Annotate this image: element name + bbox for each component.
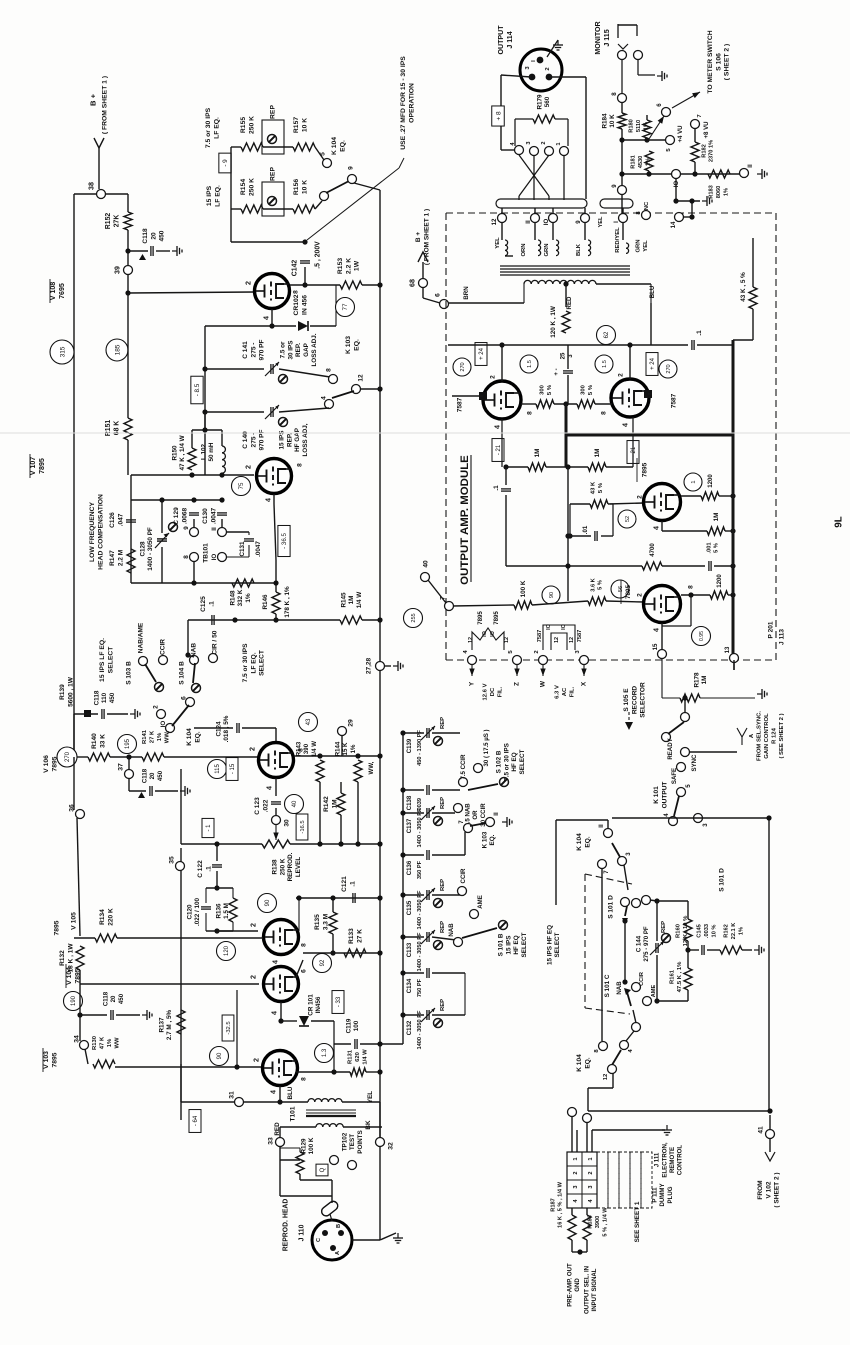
wire C140 to K103 4 bbox=[279, 408, 329, 412]
junction bus R153 bbox=[377, 282, 382, 287]
terminal CCIR S101B bbox=[458, 887, 467, 896]
wire R160 dn bbox=[687, 941, 689, 950]
junction y201 bbox=[673, 198, 678, 203]
label S101D right bbox=[718, 868, 725, 892]
junction cath mid bbox=[563, 401, 568, 406]
junction C139 bbox=[400, 730, 405, 735]
label +8VU bbox=[703, 121, 710, 139]
svg-text:1400 - 3050 PF: 1400 - 3050 PF bbox=[147, 527, 154, 571]
junction bus y620 bbox=[377, 617, 382, 622]
svg-text:- 9: - 9 bbox=[222, 159, 229, 167]
wire y242 bbox=[231, 241, 305, 243]
pin 2 V107 bbox=[245, 465, 253, 469]
wire cross b bbox=[519, 155, 549, 200]
label C120 .022/100 bbox=[186, 897, 201, 926]
wire C141 to K103 bbox=[279, 369, 330, 377]
svg-text:332 K: 332 K bbox=[237, 589, 244, 606]
terminal 9 K104 bbox=[348, 175, 357, 184]
wire C139 left bbox=[403, 732, 424, 734]
svg-text:7587: 7587 bbox=[670, 393, 677, 408]
svg-text:REP: REP bbox=[661, 921, 667, 933]
label V103 7895 bbox=[43, 1051, 58, 1069]
label .1 lower bbox=[493, 485, 500, 491]
svg-text:7587: 7587 bbox=[456, 397, 463, 412]
wire 12 left bbox=[588, 1087, 613, 1089]
label 4 K103 bbox=[320, 396, 327, 400]
label .5 200V bbox=[314, 241, 321, 269]
wire C131 loop bbox=[226, 532, 249, 557]
junction r bottom bbox=[577, 1249, 582, 1254]
node 31 bbox=[235, 1098, 244, 1107]
wire R151 up bbox=[127, 293, 129, 418]
wire R131 to bus bbox=[366, 1071, 380, 1073]
svg-text:7895: 7895 bbox=[493, 611, 500, 625]
svg-text:7895: 7895 bbox=[52, 1052, 59, 1067]
wire T101 bot left bbox=[280, 1126, 316, 1128]
wire CR101 lead bbox=[281, 1020, 297, 1022]
svg-text:15 K: 15 K bbox=[342, 742, 349, 755]
wire S101C to 4 bbox=[626, 1031, 634, 1041]
wire J110 gnd lead bbox=[380, 1233, 396, 1240]
resistor R181 bbox=[645, 151, 653, 171]
terminal READY bbox=[662, 733, 671, 742]
wire 41 up bbox=[769, 1115, 771, 1130]
ground conn bbox=[662, 1125, 672, 1135]
fold line bbox=[0, 432, 850, 434]
label 1M a bbox=[534, 449, 541, 458]
label t2 bbox=[541, 141, 547, 144]
pin 8 tubeB bbox=[600, 411, 607, 415]
svg-text:20: 20 bbox=[150, 232, 157, 240]
wire loop sides bbox=[206, 888, 233, 931]
capacitor .1 lower bbox=[501, 489, 511, 491]
switch K104 blade low bbox=[172, 705, 189, 726]
label 6 K104 bbox=[180, 696, 187, 700]
wire sec d1 bbox=[584, 222, 586, 240]
svg-text:2370 1%: 2370 1% bbox=[709, 140, 715, 162]
label 9 TB101 bbox=[183, 526, 190, 530]
label .1 module bbox=[696, 330, 703, 336]
wire tubeD plate bbox=[681, 594, 710, 596]
junction 1200b bus bbox=[730, 592, 735, 597]
wire 1200a right bbox=[719, 495, 733, 497]
svg-text:22.1 K: 22.1 K bbox=[731, 922, 737, 940]
resistor R146 bbox=[272, 592, 280, 614]
label 36K 5% bbox=[590, 577, 603, 591]
svg-text:Y: Y bbox=[468, 681, 475, 686]
wire R151 down bbox=[127, 440, 129, 475]
wire C138 left bbox=[403, 789, 424, 791]
wire V106 plate row bbox=[294, 755, 380, 757]
junction C136 bbox=[400, 852, 405, 857]
svg-text:.0033: .0033 bbox=[704, 924, 710, 938]
label J110 bbox=[298, 1224, 305, 1241]
connector J114 shell bbox=[520, 49, 562, 91]
svg-text:II: II bbox=[747, 164, 754, 168]
junction bus K103 bbox=[377, 386, 382, 391]
label -21 box b bbox=[627, 441, 639, 464]
wire caps right C138 bbox=[432, 789, 460, 791]
winding sec c bbox=[556, 240, 559, 256]
svg-text:DUMMY: DUMMY bbox=[659, 1183, 666, 1206]
pot C139 REP bbox=[434, 737, 443, 746]
wire V107 left lead bbox=[130, 475, 132, 500]
label R138 250K REPROD LEVEL bbox=[271, 852, 302, 881]
label 7.5 or 30 IPS LF EQ bbox=[205, 107, 220, 148]
arrow S101C blade bbox=[624, 988, 631, 995]
wire R150 top bbox=[191, 430, 193, 448]
svg-text:C118: C118 bbox=[93, 690, 100, 705]
label R147 2.2M bbox=[109, 550, 124, 566]
label C130 .0047 bbox=[202, 507, 217, 524]
wire V104 plate lead bbox=[296, 960, 303, 977]
wire r186 up bbox=[586, 1208, 588, 1215]
label 25 3 bbox=[559, 352, 574, 359]
label C118 20 450 v106 bbox=[141, 768, 163, 783]
node 6 meter bbox=[662, 108, 671, 117]
ground K103b bbox=[502, 817, 512, 827]
pin 4 V104 bbox=[271, 1011, 279, 1015]
svg-text:- 36.5: - 36.5 bbox=[281, 533, 288, 549]
svg-text:.1: .1 bbox=[205, 866, 212, 872]
label R152 27K bbox=[105, 213, 120, 230]
svg-text:MONITOR: MONITOR bbox=[594, 21, 602, 54]
svg-text:12: 12 bbox=[603, 1073, 609, 1080]
resistor 100K mod bbox=[514, 601, 532, 609]
svg-text:REP: REP bbox=[440, 921, 446, 933]
junction bus y1072 bbox=[377, 1069, 382, 1074]
terminal 2 J114w bbox=[545, 147, 554, 156]
wire jack dn b bbox=[534, 208, 536, 214]
svg-text:REP: REP bbox=[440, 797, 446, 809]
wire caps join r bbox=[464, 973, 466, 1015]
transformer T101 bottom coil bbox=[316, 1124, 343, 1127]
svg-text:R131: R131 bbox=[348, 1049, 354, 1064]
wire .001 right bbox=[714, 565, 733, 567]
wire wiper arrow R138 bbox=[273, 825, 278, 840]
wire K103 12 to bus bbox=[360, 388, 380, 390]
wire right bus x770 bbox=[768, 818, 770, 1111]
svg-text:R155: R155 bbox=[240, 117, 247, 133]
resistor R133 bbox=[344, 949, 366, 957]
terminal 7.5 CCIR bbox=[459, 778, 468, 787]
svg-text:6: 6 bbox=[300, 969, 307, 973]
wire C118 to gnd bbox=[156, 250, 170, 252]
test point 255 bbox=[404, 609, 423, 628]
svg-text:2: 2 bbox=[250, 923, 258, 927]
svg-text:37: 37 bbox=[117, 763, 124, 771]
wire 1M c row bbox=[662, 530, 707, 532]
label AME s101c bbox=[651, 984, 657, 997]
junction tubeB top bbox=[627, 342, 632, 347]
label K104 EQ low bbox=[186, 728, 201, 746]
svg-text:1M: 1M bbox=[713, 513, 720, 522]
label 8 TB101 bbox=[183, 555, 190, 559]
wire C144 stem bbox=[656, 901, 658, 941]
terminal 12 K103 bbox=[352, 385, 361, 394]
wire y467 a bbox=[506, 466, 528, 468]
ground C118 bbox=[172, 246, 182, 256]
label C133 REP bbox=[440, 921, 446, 933]
svg-text:3900: 3900 bbox=[595, 1216, 601, 1229]
pin 4 V106 bbox=[266, 786, 274, 790]
svg-text:EQ.: EQ. bbox=[489, 834, 496, 845]
svg-text:7895: 7895 bbox=[477, 611, 484, 625]
wire C133 left bbox=[403, 936, 424, 938]
label R181 4530 1% bbox=[631, 155, 652, 169]
terminal CCIR/50 S104B bbox=[209, 654, 218, 663]
wire 1Mc right bbox=[725, 530, 733, 532]
svg-text:C 129: C 129 bbox=[173, 507, 180, 525]
label K104 EQ bottom bbox=[576, 1054, 591, 1072]
test point 195 bbox=[118, 735, 137, 754]
label LOW FREQUENCY HEAD COMPENSATION bbox=[89, 494, 104, 570]
svg-text:C132: C132 bbox=[406, 1020, 413, 1035]
wire 43K drop bbox=[569, 504, 571, 536]
svg-text:178 K , 1%: 178 K , 1% bbox=[284, 586, 291, 618]
svg-text:R143: R143 bbox=[295, 741, 302, 756]
switch S101B blade bbox=[462, 928, 497, 938]
terminal 4 K104b bbox=[620, 1041, 629, 1050]
ground 27 28 bbox=[393, 661, 403, 671]
test point 90 V105 bbox=[258, 894, 277, 913]
label R130 47K 1% WW bbox=[92, 1035, 121, 1050]
wire 29 riser bbox=[341, 735, 343, 756]
label K104 EQ top bbox=[331, 137, 346, 155]
test point 75 bbox=[232, 477, 251, 496]
junction R144 bottom bbox=[355, 841, 360, 846]
label R129 100K bbox=[300, 1137, 315, 1154]
label pin1 J114 bbox=[531, 60, 537, 62]
junction 14 right bbox=[689, 214, 694, 219]
label 11 K103b bbox=[493, 812, 500, 816]
svg-text:K 104: K 104 bbox=[186, 728, 193, 746]
wire R155 left bbox=[231, 146, 241, 148]
label K103 EQ b bbox=[481, 831, 496, 848]
svg-text:2: 2 bbox=[489, 375, 496, 379]
capacitor C120 (.022/100) bbox=[201, 907, 211, 909]
switch S101D blade bbox=[625, 906, 627, 916]
polarity mark C118 v106 bbox=[138, 792, 145, 798]
wire comp left vert bbox=[130, 500, 132, 583]
label +24 box left bbox=[475, 343, 487, 366]
svg-text:4: 4 bbox=[653, 628, 661, 632]
junction y566 bus bbox=[730, 563, 735, 568]
label pin C bbox=[316, 1238, 322, 1242]
terminal 10 K104 bbox=[166, 724, 175, 733]
svg-text:C138: C138 bbox=[406, 795, 413, 810]
wire diode lead bbox=[272, 325, 296, 327]
wire 68 down bbox=[422, 287, 424, 298]
thick bus right bbox=[732, 340, 735, 656]
svg-text:REP.: REP. bbox=[286, 433, 293, 447]
label 3 term bbox=[575, 650, 581, 654]
svg-text:OUTPUT: OUTPUT bbox=[497, 25, 505, 55]
wire C140 row bbox=[205, 411, 264, 413]
svg-text:250 K: 250 K bbox=[279, 858, 286, 875]
wire jack dn d bbox=[584, 208, 586, 214]
svg-text:V 103: V 103 bbox=[43, 1051, 50, 1069]
wire str d bbox=[563, 156, 565, 200]
svg-text:C139: C139 bbox=[406, 738, 413, 753]
shield oval b bbox=[600, 199, 633, 208]
wire r186 dn bbox=[586, 1240, 588, 1252]
resistor 1M a bbox=[528, 463, 546, 471]
wire R154-R156 bbox=[263, 208, 293, 210]
pin 8 V107 bbox=[296, 463, 303, 467]
svg-text:7895: 7895 bbox=[52, 756, 59, 771]
test point 40 bbox=[285, 795, 304, 814]
connector J111 frame bbox=[567, 1152, 597, 1208]
ground meter bbox=[757, 169, 767, 179]
svg-text:S 101 C: S 101 C bbox=[604, 974, 611, 997]
svg-text:90: 90 bbox=[265, 899, 271, 906]
wire pri left bbox=[448, 302, 524, 304]
junction 1200a bus bbox=[730, 493, 735, 498]
label fil 10b bbox=[490, 631, 496, 637]
svg-text:5 %: 5 % bbox=[598, 482, 604, 493]
svg-text:C 123: C 123 bbox=[254, 797, 261, 815]
label 27 28 bbox=[365, 657, 372, 674]
resistor R160 bbox=[684, 919, 692, 941]
label R183 8060 1% bbox=[709, 185, 730, 199]
svg-text:1400 - 3050 PF: 1400 - 3050 PF bbox=[417, 808, 423, 848]
transformer T101 top coil bbox=[308, 1099, 342, 1102]
label 9 meter bbox=[611, 184, 618, 188]
label 9 xfmr bbox=[575, 220, 582, 224]
label 7.5 CCIR bbox=[460, 754, 467, 780]
junction comp br bbox=[273, 580, 278, 585]
wire R146 dn bbox=[275, 614, 277, 620]
wire y467 b bbox=[546, 466, 588, 468]
label 8 K103 bbox=[325, 368, 332, 372]
tube V103 (7895) bbox=[263, 1051, 298, 1086]
terminal 1 K104 eq bbox=[320, 192, 329, 201]
svg-text:7895: 7895 bbox=[38, 458, 46, 474]
wire sec b1 bbox=[534, 222, 536, 240]
wire sec e1 bbox=[622, 222, 624, 240]
wire V103 grid riser bbox=[180, 1064, 182, 1092]
label J111 pin 4 b bbox=[588, 1199, 594, 1203]
label +4VU bbox=[677, 125, 684, 143]
svg-text:1: 1 bbox=[588, 1157, 594, 1160]
wire c118v106 bbox=[129, 790, 146, 792]
svg-text:1%: 1% bbox=[245, 593, 252, 603]
wire V107 cath3 bbox=[275, 560, 277, 592]
svg-text:R180: R180 bbox=[629, 119, 635, 133]
underline V107 bbox=[29, 454, 31, 478]
wire caps right C133 bbox=[432, 937, 456, 940]
svg-text:T101: T101 bbox=[289, 1106, 296, 1121]
wire sync right bbox=[689, 751, 737, 753]
label Q box bbox=[316, 1164, 328, 1176]
junction C133 bbox=[400, 934, 405, 939]
junction node37 tap bbox=[126, 754, 131, 759]
svg-text:REP: REP bbox=[440, 717, 446, 729]
wire C128 up bbox=[161, 500, 163, 533]
pin 8 V108 bbox=[292, 290, 299, 294]
capacitor C118 (110/450) bbox=[102, 709, 104, 719]
wire conn b bbox=[586, 1122, 588, 1152]
svg-text:1400 - 3050 PF: 1400 - 3050 PF bbox=[417, 1010, 423, 1050]
svg-text:V 105: V 105 bbox=[70, 912, 77, 930]
label C135 REP bbox=[440, 879, 446, 891]
svg-text:K 104: K 104 bbox=[331, 137, 338, 155]
wire R129 path bbox=[280, 1148, 300, 1152]
label S103B bbox=[125, 661, 132, 685]
svg-text:( SHEET 2 ): ( SHEET 2 ) bbox=[773, 1172, 780, 1207]
label C135 bbox=[406, 900, 413, 915]
svg-text:.5 , 200V: .5 , 200V bbox=[314, 241, 321, 269]
wire J114 left vert bbox=[500, 75, 502, 150]
svg-text:3: 3 bbox=[588, 1185, 594, 1188]
label S101D bbox=[607, 895, 614, 919]
wire left bus V106-V105 bbox=[73, 757, 75, 810]
label YEL bbox=[367, 1091, 374, 1103]
label 7.5 or 30 IPS LF EQ SELECT bbox=[242, 643, 265, 682]
wire R135 dn bbox=[332, 934, 334, 953]
switch K104 blade top bbox=[326, 181, 349, 193]
label CR102 IN456 bbox=[293, 294, 308, 315]
svg-text:OPERATION: OPERATION bbox=[409, 83, 416, 123]
svg-text:250 K: 250 K bbox=[249, 178, 256, 196]
test point 270 left bbox=[57, 747, 77, 767]
label 8 meter bbox=[611, 92, 618, 96]
svg-text:10 %: 10 % bbox=[711, 925, 717, 938]
terminal NAB S101B bbox=[454, 938, 463, 947]
label C128 1400-3050PF bbox=[139, 527, 154, 571]
label S104B bbox=[178, 661, 185, 685]
svg-text:250 K: 250 K bbox=[249, 116, 256, 134]
wire cath row a bbox=[521, 403, 536, 405]
terminal 12 xfmr bbox=[498, 214, 507, 223]
wire bus x380 top bbox=[379, 190, 381, 844]
label C131 .0047 bbox=[239, 541, 246, 557]
svg-text:NAB: NAB bbox=[616, 981, 623, 995]
switch S103B blade bbox=[145, 664, 156, 682]
test point 270 module L bbox=[453, 358, 471, 376]
svg-text:5110: 5110 bbox=[636, 120, 642, 132]
wire R156 right bbox=[315, 201, 322, 209]
svg-text:190: 190 bbox=[71, 995, 77, 1006]
terminal 11 K104u bbox=[604, 829, 613, 838]
label NAB S104B bbox=[190, 643, 197, 657]
svg-text:390: 390 bbox=[303, 743, 310, 754]
svg-text:275 -: 275 - bbox=[250, 433, 257, 448]
label READY bbox=[667, 738, 674, 759]
tube output A (7587) bbox=[483, 381, 521, 419]
dashed S101D top diag bbox=[585, 874, 632, 884]
label 5 term bbox=[508, 650, 514, 654]
svg-text:-16.5: -16.5 bbox=[300, 820, 306, 833]
jack contact b bbox=[634, 51, 643, 60]
terminal NAB S104B bbox=[190, 656, 199, 665]
terminal TP102 a bbox=[330, 1156, 339, 1165]
svg-text:CR102: CR102 bbox=[293, 294, 300, 315]
svg-text:R147: R147 bbox=[109, 550, 116, 566]
wire node13 dn bbox=[733, 662, 735, 670]
svg-text:R144: R144 bbox=[334, 741, 341, 756]
svg-text:8: 8 bbox=[296, 463, 303, 467]
wire C123 dn bbox=[275, 808, 277, 815]
label R153 2.2K 1W bbox=[337, 258, 361, 274]
capacitor C140 (275-970PF) bbox=[265, 405, 279, 419]
capacitor .01 mod bbox=[595, 531, 597, 541]
label -33 box bbox=[332, 991, 344, 1014]
junction R135 bottom bbox=[330, 950, 335, 955]
svg-text:C137: C137 bbox=[406, 818, 413, 833]
capacitor C133 bbox=[421, 930, 435, 944]
